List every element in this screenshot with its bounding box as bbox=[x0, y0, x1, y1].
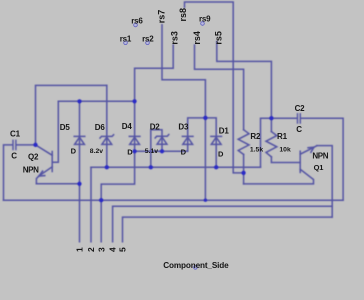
svg-text:NPN: NPN bbox=[23, 166, 39, 175]
svg-text:C2: C2 bbox=[295, 104, 306, 113]
svg-text:D5: D5 bbox=[60, 123, 71, 132]
svg-text:rs1: rs1 bbox=[120, 34, 132, 43]
svg-text:D4: D4 bbox=[122, 122, 133, 131]
svg-text:D: D bbox=[71, 146, 77, 155]
svg-text:R2: R2 bbox=[250, 132, 261, 141]
svg-text:rs9: rs9 bbox=[199, 15, 211, 24]
svg-text:Q1: Q1 bbox=[314, 163, 324, 172]
svg-text:rs6: rs6 bbox=[131, 16, 143, 25]
svg-text:2: 2 bbox=[86, 247, 96, 252]
svg-text:D: D bbox=[181, 148, 187, 157]
svg-text:8.2v: 8.2v bbox=[90, 148, 103, 155]
svg-text:3: 3 bbox=[96, 247, 106, 252]
svg-text:rs3: rs3 bbox=[170, 31, 180, 45]
svg-text:10k: 10k bbox=[279, 146, 291, 153]
svg-text:4: 4 bbox=[108, 247, 118, 252]
svg-text:rs8: rs8 bbox=[178, 8, 188, 22]
svg-text:NPN: NPN bbox=[312, 151, 328, 160]
svg-text:rs2: rs2 bbox=[142, 34, 154, 43]
svg-text:rs4: rs4 bbox=[192, 31, 202, 45]
svg-text:5.1v: 5.1v bbox=[145, 148, 158, 155]
svg-text:Q2: Q2 bbox=[28, 152, 39, 161]
svg-text:rs5: rs5 bbox=[214, 31, 224, 45]
svg-text:1.5k: 1.5k bbox=[250, 146, 263, 153]
svg-text:D3: D3 bbox=[178, 123, 189, 132]
svg-text:D6: D6 bbox=[95, 123, 106, 132]
svg-text:D: D bbox=[218, 150, 224, 159]
svg-text:C: C bbox=[11, 152, 17, 161]
svg-text:Component_Side: Component_Side bbox=[163, 261, 229, 270]
svg-text:5: 5 bbox=[117, 247, 127, 252]
svg-text:R1: R1 bbox=[277, 132, 288, 141]
svg-text:C1: C1 bbox=[10, 129, 21, 138]
svg-text:D: D bbox=[127, 147, 133, 156]
svg-text:1: 1 bbox=[75, 247, 85, 252]
svg-text:rs7: rs7 bbox=[157, 10, 167, 24]
svg-text:D2: D2 bbox=[150, 123, 161, 132]
svg-text:D1: D1 bbox=[219, 126, 230, 135]
svg-text:C: C bbox=[296, 125, 302, 134]
